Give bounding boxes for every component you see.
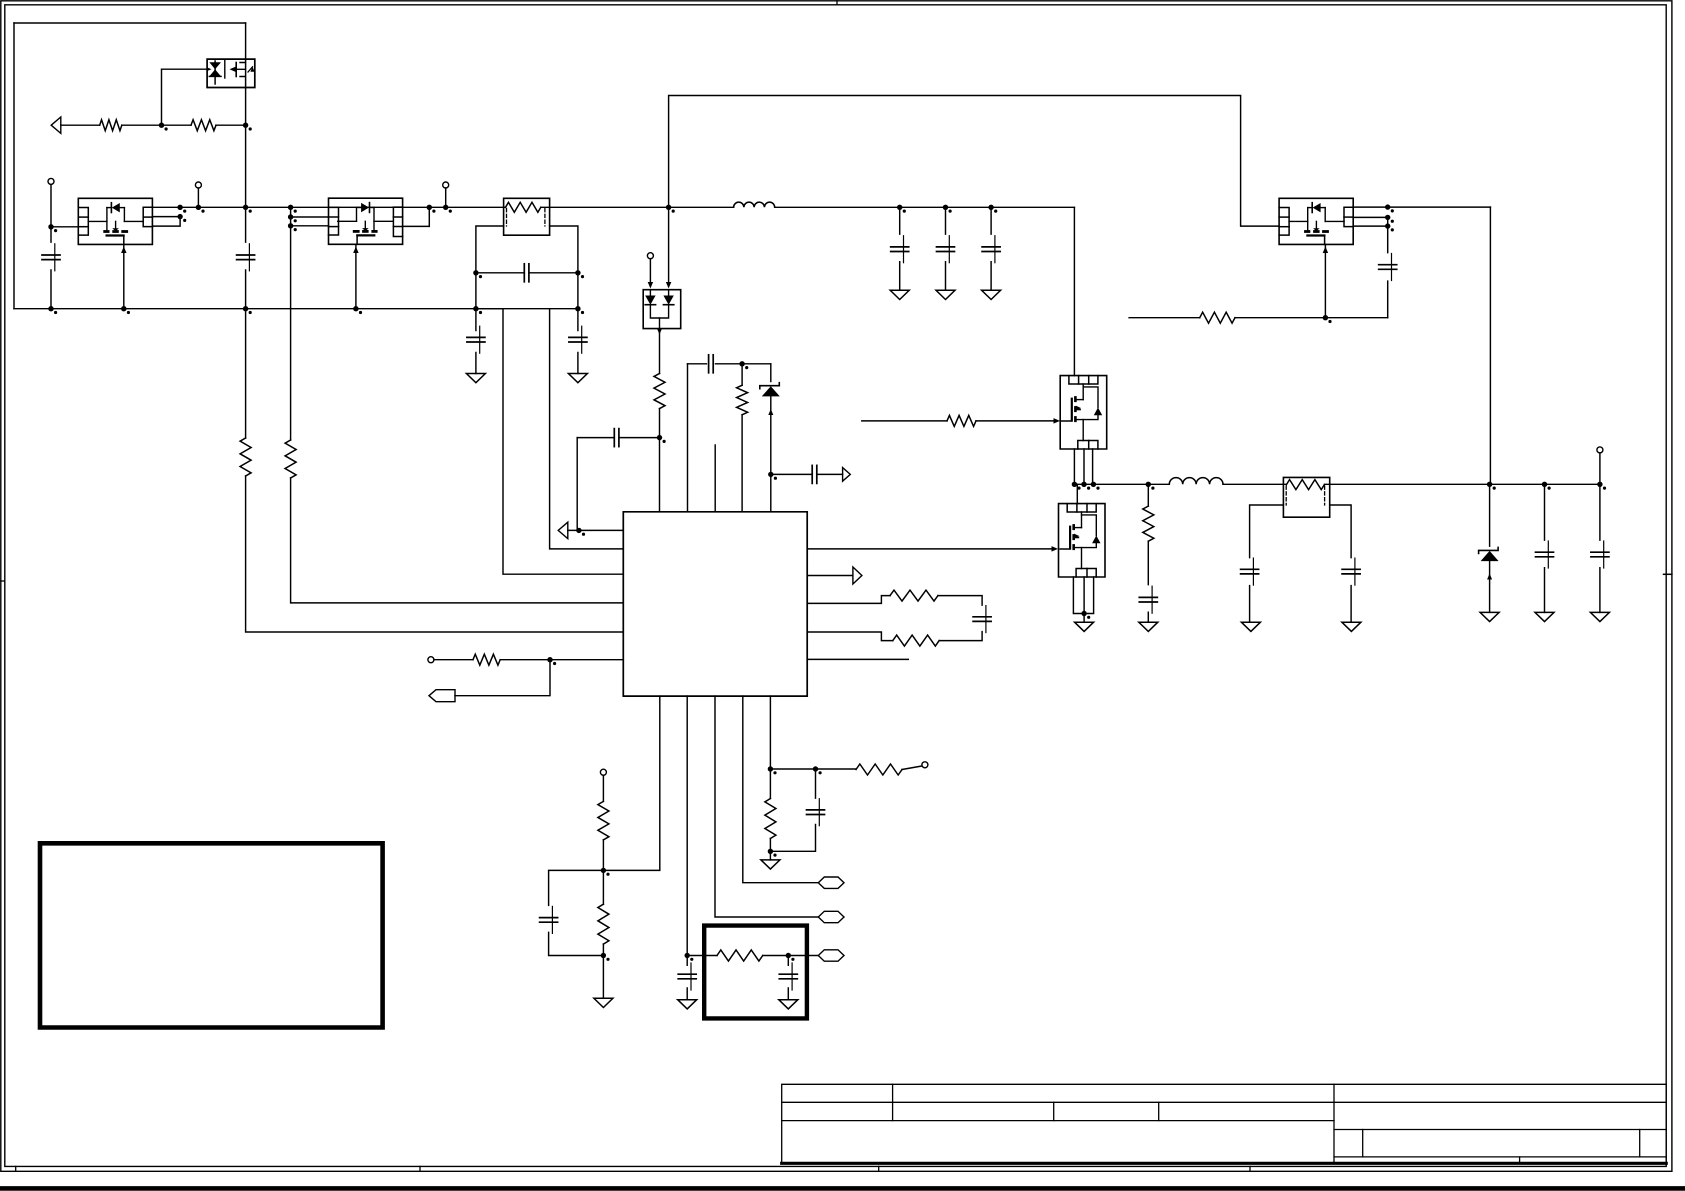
junction divider node [601, 868, 606, 873]
wire bus after L1 [775, 206, 1075, 208]
capacitor C15 parallel [770, 769, 815, 851]
ground G10 [1075, 622, 1094, 631]
title block bottom heavy line [782, 1162, 1666, 1165]
T2 primary zigzag [1286, 480, 1324, 490]
wire sec left to C6 and ground [475, 309, 477, 374]
wire Q3 source to bus [355, 244, 357, 308]
wire terminal down to gate node [50, 184, 52, 226]
capacitor C14 [779, 973, 797, 975]
wire L2 to T2 [1223, 483, 1286, 485]
capacitor C11 [973, 616, 991, 618]
wire node B to zener corner [742, 363, 771, 365]
wire bus down into diode pack [668, 207, 670, 285]
wire R8 to C11 [938, 596, 982, 606]
wires Q5 sources to SW node [1074, 449, 1092, 484]
wire C8 left leg down to IC pin1 row [576, 438, 578, 531]
dual diode pack D1 box [643, 290, 681, 329]
title block divider col C [1158, 1102, 1160, 1120]
diode D1b [663, 296, 673, 305]
ground G13 [1342, 622, 1361, 631]
wire output rail [1324, 483, 1600, 485]
junction divider bottom [601, 953, 606, 958]
title block outline [782, 1084, 1666, 1164]
resistor R6 [741, 364, 743, 386]
capacitor C6 [467, 336, 485, 338]
zener diode Z1 [770, 364, 772, 382]
title block divider col B [1053, 1102, 1055, 1120]
ground G2 [568, 374, 587, 383]
capacitor C19 [1139, 596, 1157, 598]
junction output at C23 [1542, 482, 1547, 487]
junction bus cap 2 [943, 205, 948, 210]
wire R12 to node [763, 955, 819, 957]
title block right row line 2 [1334, 1129, 1666, 1131]
title block right bottom divider [1519, 1157, 1521, 1164]
wire branch to IC VCC pin [476, 309, 623, 575]
wire IC bottom pin4 to flag1 [743, 696, 819, 883]
ground G6 [761, 860, 780, 869]
Q1 internal drain rail [245, 59, 247, 87]
snubber highlight box (heavy border) [704, 926, 807, 1019]
wire pack pin to gate node [207, 68, 209, 70]
capacitor C2 [237, 254, 255, 256]
wire Q4 drain rail down to output [1489, 207, 1491, 484]
capacitor C8 (comp) [577, 437, 659, 439]
wire snubber cap down [686, 956, 688, 1000]
junction snubber in [685, 953, 690, 958]
Q1 internal divider [224, 60, 226, 78]
terminal circle T4 [600, 769, 606, 775]
terminal circle T5 [922, 762, 928, 768]
junction R13/C15 bottom [768, 849, 773, 854]
wire node down to C1 [50, 227, 52, 309]
inductor L1 [734, 202, 775, 207]
IC top stub pin [714, 445, 716, 512]
ground G16 [1590, 612, 1609, 621]
wire IC bottom pin2 down [686, 696, 688, 955]
capacitor C18 [982, 246, 1000, 248]
wire terminal stub 2 [445, 188, 447, 207]
capacitor C17 [937, 246, 955, 248]
wire input box left edge [13, 23, 15, 309]
wire bus corner down to Q5 [1073, 207, 1075, 375]
ground G14 [1480, 612, 1499, 621]
junction rail at bus [243, 205, 248, 210]
wire IC right pin1 to Q6 gate [807, 548, 1051, 550]
title block divider col A [892, 1084, 894, 1120]
wire IC right RC loop upper [807, 596, 890, 604]
wire R15 to Q5 [976, 420, 1054, 422]
diode pack center tap out [659, 318, 661, 329]
wire terminal stub [197, 188, 199, 207]
wire pin5 node link [770, 768, 815, 770]
wire bus cap 1 [899, 207, 901, 290]
capacitor C23 branch [1544, 484, 1546, 612]
ground G8 [936, 290, 955, 299]
junction zener net [768, 472, 773, 477]
controller IC U1 [623, 512, 807, 696]
wire C10 to flag [817, 473, 843, 475]
wire R5 to node A [659, 409, 661, 438]
junction SW at R16 [1146, 482, 1151, 487]
wire pin5 node to R14 [816, 768, 857, 770]
net flag IC right (right arrow) [853, 567, 862, 584]
wire R14 to terminal [902, 766, 922, 770]
mosfet block Q6 (low side) [1059, 504, 1106, 577]
wire terminal to R10 [602, 775, 604, 801]
wire Q4 outputs to rail [1353, 206, 1490, 208]
ground G9 [982, 290, 1001, 299]
wire x290 down to R4 [290, 226, 292, 440]
terminal circle T2a [647, 253, 653, 259]
wire Q4 U-link [1353, 217, 1388, 226]
wire terminal to R7 [434, 659, 473, 661]
wire SW node rail [1074, 483, 1169, 485]
capacitor C9 [708, 355, 710, 373]
wire IC right pin2 to flag [807, 575, 853, 577]
wire node up to dual-pack gate [162, 69, 208, 125]
junction rail at bottom bus [243, 306, 248, 311]
resistor R10 [598, 801, 609, 840]
diode pack cathode link [650, 305, 668, 318]
wire C11 down and loop back [939, 632, 982, 641]
border zone tick top [836, 1, 838, 5]
title block right row line 3 [1334, 1156, 1666, 1158]
junction pin5 node [768, 766, 773, 771]
wire node to Q2 left pins [51, 226, 78, 228]
wire R1 to node [122, 124, 191, 126]
junction R2 at vertical [243, 123, 248, 128]
capacitor C12 [540, 917, 558, 919]
junction sec right at cap [575, 270, 580, 275]
Q1 internal TVS bowtie [209, 62, 221, 69]
inductor L2 [1169, 478, 1223, 485]
capacitor C13 [678, 973, 696, 975]
ground G3 [594, 998, 613, 1007]
wire R2 to vertical bus [216, 124, 246, 126]
wire C12 parallel loop [549, 870, 604, 955]
junction bus cap 1 [897, 205, 902, 210]
capacitor C10 [811, 465, 813, 483]
junction Q6 source [1081, 611, 1086, 616]
wire rail to capacitor C2 [245, 207, 247, 308]
mosfet block Q2 [78, 198, 152, 244]
wire top feedback loop [669, 96, 1280, 227]
wire Q4 source down [1324, 244, 1326, 317]
wire U-link down to C22 [1387, 226, 1389, 318]
capacitor C7 [569, 336, 587, 338]
wire C14 down [787, 956, 789, 1000]
title block row line 1 [782, 1101, 1666, 1103]
junction output at C24 [1597, 482, 1602, 487]
wire R3 to IC pin row [246, 476, 624, 632]
wire bus cap 3 [990, 207, 992, 290]
wire branch to IC pin 2 [550, 309, 624, 549]
ground G12 [1241, 622, 1260, 631]
wire IC bottom pin5 down [769, 696, 771, 769]
resistor R5 [654, 374, 665, 409]
ground G1 [466, 374, 485, 383]
capacitor C1 [42, 254, 60, 256]
resistor R17 [1200, 312, 1235, 323]
resistor R12 (in box) [717, 950, 763, 961]
mosfet block Q4 [1279, 198, 1353, 244]
ground G4 [678, 1000, 697, 1009]
wire T1 secondary right tap [550, 226, 578, 309]
wire T1 secondary left tap [476, 226, 504, 309]
wire rail down to R3 [245, 309, 247, 438]
resistor R15 [947, 415, 976, 426]
wire Q2 right pins U-link [152, 217, 180, 227]
title block right inner cell right [1639, 1130, 1641, 1157]
dual mosfet pack Q1 body [207, 59, 255, 87]
net flag comp out (right arrow) [843, 468, 851, 482]
junction loop at bus [666, 205, 671, 210]
junction node A [657, 435, 662, 440]
wire pin6 node to pentagon flag [455, 660, 550, 696]
wire loop back to IC pin [807, 632, 893, 641]
wire node A down to IC [659, 438, 661, 512]
capacitor C24 branch [1599, 484, 1601, 612]
zener diode Z2 [1489, 484, 1491, 546]
resistor R2 [191, 120, 216, 131]
junction Q4 source [1323, 315, 1328, 320]
title block divider main right section [1333, 1084, 1335, 1164]
wire Q3 gate feeds [291, 207, 329, 226]
main horizontal bus [152, 206, 505, 208]
mosfet block Q5 (high side) [1060, 376, 1107, 449]
wire to ground [769, 851, 771, 860]
T2 coupling dashes [1285, 486, 1287, 505]
junction input node [48, 224, 53, 229]
wire R10 to divider node [602, 840, 604, 904]
junction snubber node [786, 953, 791, 958]
T2 secondary left tap [1250, 505, 1284, 622]
wire terminal to output rail [1599, 453, 1601, 484]
border zone tick right [1664, 573, 1672, 575]
notes box (empty, heavy border) [40, 843, 383, 1027]
mosfet block Q3 (mirrored) [329, 198, 403, 244]
junction pin6 node [547, 657, 552, 662]
resistor R16 (SW sense) [1147, 484, 1149, 506]
wire Q5 gate [862, 420, 947, 422]
terminal circle T3 [428, 657, 434, 663]
wire IC bottom pin1 to divider [603, 696, 659, 870]
net flag oval 2 [818, 911, 844, 922]
net flag input sense (left arrow) [51, 117, 61, 133]
junction sec left at bus [473, 306, 478, 311]
resistor R11 [598, 904, 609, 944]
junction sec left at cap [473, 270, 478, 275]
junction sec right at bus [575, 306, 580, 311]
border zone tick left [1, 580, 5, 582]
wire comp cap C9 run [688, 363, 743, 365]
junction bus x180 [177, 205, 182, 210]
net flag IC pin1 (left arrow) [558, 522, 568, 538]
title block right inner cell left [1362, 1130, 1364, 1157]
wire bus cap 2 [945, 207, 947, 290]
wire into snubber resistor [687, 955, 717, 957]
junction C1 bottom [48, 306, 53, 311]
transformer T1 coupling dashes [506, 209, 508, 227]
net flag oval 1 [818, 877, 844, 888]
wire C9 left corner down to IC [687, 364, 689, 512]
junction bus at x=290.6 [288, 205, 293, 210]
wire SW to Q6 drain [1076, 484, 1078, 503]
resistor R9 [893, 635, 939, 646]
wire R17 to source node [1235, 317, 1388, 319]
title block row line 2 left [782, 1120, 1334, 1122]
transformer T1 primary zigzag [506, 202, 541, 212]
junction Q2 source at bus [121, 306, 126, 311]
junction at IC pin1 [576, 528, 581, 533]
ground G5 [779, 1000, 798, 1009]
capacitor C21 [1342, 568, 1360, 570]
diode D1a [645, 296, 655, 305]
junction node R1/R2 [159, 123, 164, 128]
wire flag to R1 [61, 124, 100, 126]
terminal circle above bus T1b [195, 182, 201, 188]
junction SW node dots [1072, 482, 1077, 487]
capacitor C16 [891, 246, 909, 248]
junction output at zener [1487, 482, 1492, 487]
wire flag to IC pin1 [568, 529, 624, 531]
net flag pentagon [429, 690, 455, 702]
wire R11 to ground [602, 944, 604, 998]
wire Q2 source to bottom bus [123, 244, 125, 308]
wire R7 to IC pin6 [500, 659, 623, 661]
capacitor C22 [1379, 264, 1397, 266]
resistor R1 [100, 120, 122, 131]
ground G11 [1139, 622, 1158, 631]
border zone ticks bottom [15, 1166, 17, 1171]
wire vertical main rail x=245.6 [245, 23, 247, 207]
resistor R4 [285, 440, 296, 478]
T2 secondary right tap [1330, 505, 1351, 622]
wire sec right to C7 and ground [577, 309, 579, 374]
input terminal circle T1a [48, 178, 54, 184]
wire Q4 source bus [1129, 317, 1200, 319]
junction node B [739, 361, 744, 366]
junction bus cap 3 [988, 205, 993, 210]
resistor R3 [240, 438, 251, 476]
wire bottom return bus [14, 308, 578, 310]
resistor R13 [769, 769, 771, 799]
wire R4 to IC pin [291, 478, 624, 603]
capacitor C5 across secondary [476, 272, 578, 274]
wire IC right pin5 stub [807, 658, 908, 660]
wire IC bottom pin3 to flag2 [715, 696, 818, 917]
sense transformer T2 box [1283, 477, 1329, 517]
Q1 internal mosfet [230, 67, 236, 72]
wire bus after T1 [541, 206, 734, 208]
capacitor C20 [1241, 568, 1259, 570]
bottom edge black strip [0, 1186, 1685, 1191]
output terminal circle [1597, 447, 1603, 453]
resistor R8 [890, 590, 938, 601]
terminal circle T1c [443, 182, 449, 188]
resistor R14 [856, 764, 902, 775]
wire Q3 right pin jog to bus [403, 207, 430, 226]
wires Q6 sources to ground [1073, 577, 1093, 622]
wire input box top edge [14, 22, 246, 24]
transformer T1 box [504, 198, 550, 235]
resistor R7 [473, 654, 500, 665]
wire terminal into diode pack [649, 259, 651, 286]
wire zener net down to IC [770, 474, 772, 511]
ground G15 [1535, 612, 1554, 621]
ground G7 [890, 290, 909, 299]
net flag oval 3 [818, 950, 844, 961]
wire zener net to C10 [771, 473, 812, 475]
